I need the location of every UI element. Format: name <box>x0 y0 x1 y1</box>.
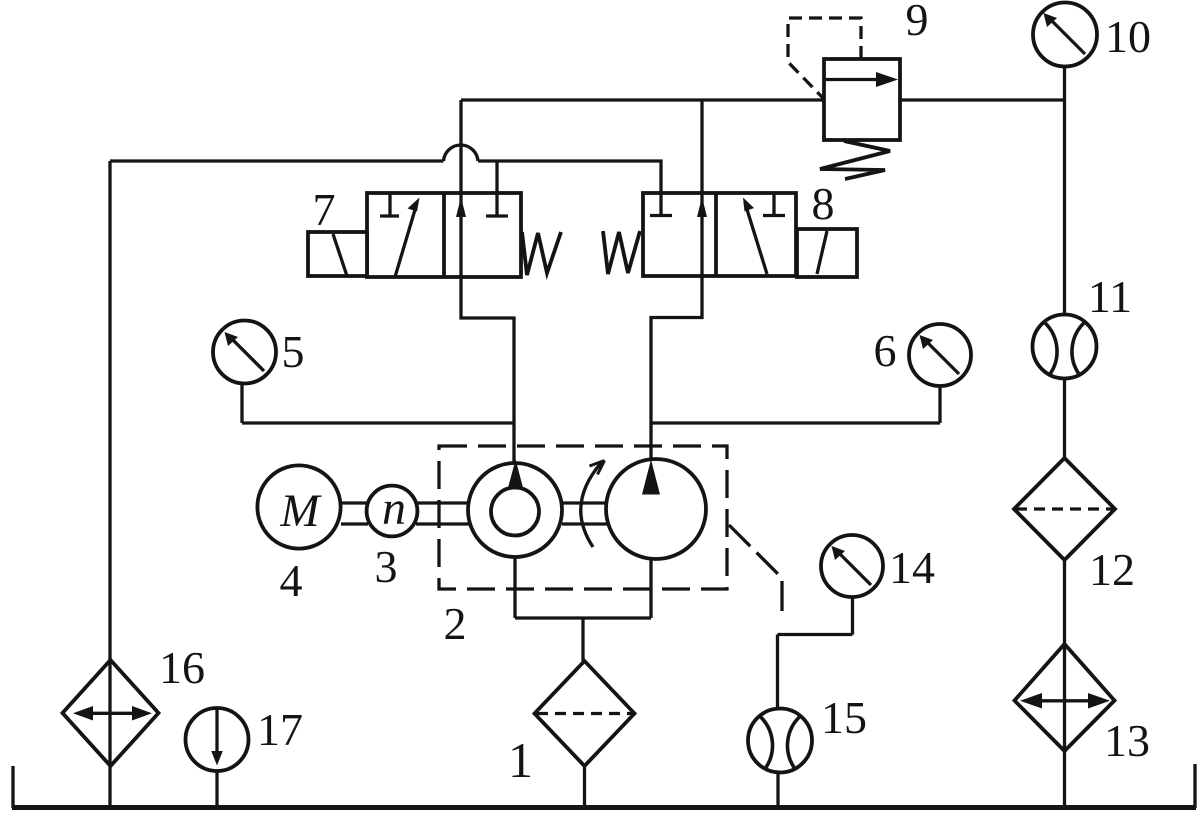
svg-text:16: 16 <box>159 642 205 693</box>
valve 8 right square blocked port T <box>763 193 785 216</box>
wire: gauge5 branch <box>242 421 514 424</box>
svg-text:6: 6 <box>874 325 897 376</box>
wire: drain line dashed <box>729 525 782 613</box>
pump P1 inner circle <box>491 488 539 536</box>
pump P1 flow arrow <box>508 460 524 490</box>
wire: upper-left horizontal with hump <box>110 159 444 162</box>
valve 8 left square through arrow <box>700 193 703 276</box>
wire: top horizontal right of relief valve <box>900 98 1065 101</box>
gauge 14 <box>821 535 883 597</box>
cooler 13 diamond <box>1015 644 1115 751</box>
wire: gauge6 stem <box>938 386 941 423</box>
cooler 16 diamond <box>63 660 159 766</box>
svg-text:12: 12 <box>1089 544 1135 595</box>
valve 8 right square crossed arrow <box>745 203 767 274</box>
wire: drain corner to flowmeter15 <box>776 635 779 713</box>
wire: gauge14 stem <box>851 597 854 635</box>
svg-text:8: 8 <box>812 178 835 229</box>
valve 7 left square blocked port T <box>380 193 399 216</box>
valve 7 solenoid <box>308 232 367 276</box>
wire: gauge5 stem <box>240 384 243 423</box>
gauge 6 <box>909 324 971 386</box>
flowmeter 15 <box>748 709 812 773</box>
svg-text:n: n <box>382 482 406 535</box>
relief valve 9 pilot dashed line <box>788 18 861 98</box>
svg-text:4: 4 <box>280 555 303 606</box>
filter 12 diamond <box>1014 458 1115 560</box>
valve 7 spring <box>522 232 561 275</box>
cooler 16 through line <box>108 660 111 766</box>
tank right tick <box>1193 764 1196 808</box>
pump P2 outer circle <box>606 459 706 559</box>
wire: right column between 11 and 12 <box>1063 378 1066 458</box>
filter 12 element dashed <box>1016 507 1113 510</box>
wire: valve8 bottom to pump inlet <box>651 276 702 461</box>
svg-text:7: 7 <box>313 184 336 235</box>
pump P1 outer circle <box>468 463 562 557</box>
valve 7 body <box>367 193 521 277</box>
filter 1 diamond <box>535 661 635 766</box>
relief valve 9 spring <box>820 141 890 179</box>
wire: gauge14 branch <box>778 633 853 636</box>
tachometer 3 circle <box>367 486 418 537</box>
wire: valve8 top feed vertical <box>700 100 703 193</box>
svg-text:3: 3 <box>375 541 398 592</box>
tank line <box>12 805 1196 810</box>
svg-text:13: 13 <box>1104 715 1150 766</box>
valve 8 body <box>643 193 796 276</box>
motor 4 circle <box>257 465 340 548</box>
svg-text:17: 17 <box>257 704 303 755</box>
cooler 13 double arrow <box>1032 699 1098 702</box>
svg-text:15: 15 <box>821 692 867 743</box>
wire: filter1 to tank <box>583 766 586 806</box>
cooler 13 through line <box>1063 644 1066 751</box>
valve 8 solenoid <box>797 229 857 277</box>
pump unit 2 dashed enclosure <box>439 446 727 589</box>
pump P2 flow arrow <box>642 460 660 495</box>
thermometer 17 <box>186 708 249 771</box>
wire: gauge6 branch <box>651 421 940 424</box>
valve 8 position divider <box>714 193 718 276</box>
gauge 10 <box>1033 3 1097 67</box>
svg-text:1: 1 <box>508 732 533 788</box>
shaft between tachometer and pump <box>416 503 469 524</box>
wire: right column from 12 to tank <box>1063 560 1066 806</box>
valve 7 right square through arrow <box>459 193 462 277</box>
wire: top horizontal left of relief valve <box>461 98 824 101</box>
wire: valve7 bottom to pump inlet <box>461 277 514 463</box>
relief valve 9 flow arrow <box>824 78 884 81</box>
wire: right pump outlet down <box>649 558 652 618</box>
wire: right column upper <box>1063 67 1066 315</box>
wire: flowmeter15 to tank <box>776 770 779 806</box>
cooler 16 double arrow <box>84 712 141 715</box>
wire: thermometer17 stem <box>215 770 218 806</box>
svg-text:5: 5 <box>282 326 305 377</box>
rotation arrow between pumps <box>581 463 601 547</box>
wire: left pump outlet down <box>513 557 516 618</box>
filter 1 element dashed <box>537 712 632 715</box>
gauge 5 <box>213 321 276 384</box>
wire: manifold to filter1 <box>581 618 584 661</box>
valve 7 left square crossed arrow <box>395 203 417 277</box>
svg-text:14: 14 <box>889 542 935 593</box>
svg-text:2: 2 <box>444 598 467 649</box>
wire: valve7 top feed vertical <box>459 100 462 193</box>
valve 7 position divider <box>442 193 446 277</box>
wire: left return vertical <box>108 161 111 806</box>
shaft between pumps <box>562 503 607 524</box>
svg-text:9: 9 <box>906 0 929 45</box>
valve 7 right square blocked port T <box>486 193 508 216</box>
wire: hump to valve8 top port <box>478 161 661 193</box>
shaft between motor and tachometer <box>341 503 368 524</box>
valve 8 left square blocked port T <box>650 193 672 216</box>
svg-text:M: M <box>279 485 322 537</box>
tank left tick <box>11 766 14 808</box>
relief valve 9 body <box>824 59 900 140</box>
wire: stub down to valve7 top-right port <box>495 161 498 193</box>
flowmeter 11 <box>1033 315 1097 379</box>
svg-text:10: 10 <box>1105 11 1151 62</box>
svg-text:11: 11 <box>1088 271 1132 322</box>
wire crossover hump <box>444 145 479 161</box>
wire: pump outlet manifold <box>515 616 651 619</box>
valve 8 spring <box>603 231 640 274</box>
